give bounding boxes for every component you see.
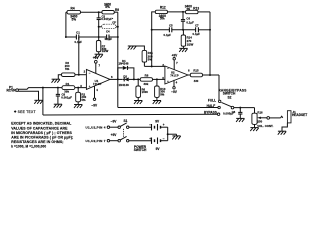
-9V terminal U1 — [94, 86, 96, 99]
switch contact HALF — [218, 106, 220, 108]
resistor R9 — [102, 11, 114, 14]
svg-text:430: 430 — [194, 79, 199, 83]
svg-text:EXCEPT AS INDICATED, DECIMAL: EXCEPT AS INDICATED, DECIMAL — [11, 122, 72, 126]
capacitor C8 — [239, 108, 241, 112]
node — [133, 78, 135, 80]
wire left vertical — [152, 12, 156, 67]
node — [137, 78, 139, 80]
ground — [236, 118, 244, 122]
-9V terminal U2 — [173, 80, 175, 87]
svg-text:1/2W: 1/2W — [102, 49, 109, 53]
svg-text:SWITCH: SWITCH — [134, 148, 147, 152]
capacitor C2 — [98, 12, 100, 17]
node bypass tap — [42, 87, 44, 89]
svg-text:R16: R16 — [257, 111, 263, 115]
diode D1 — [123, 66, 128, 70]
svg-text:VOL. CONT.: VOL. CONT. — [257, 124, 273, 128]
op-amp U1 — [86, 69, 110, 89]
wire battery junction — [167, 127, 169, 141]
node — [156, 78, 158, 80]
svg-text:R1: R1 — [66, 82, 70, 86]
svg-text:0.047μF*: 0.047μF* — [101, 17, 114, 21]
svg-text:C5: C5 — [169, 24, 173, 28]
wire to jack — [270, 117, 281, 119]
svg-text:RESISTANCES ARE IN OHMS;: RESISTANCES ARE IN OHMS; — [11, 140, 63, 144]
svg-text:VALUES OF CAPACITANCE ARE: VALUES OF CAPACITANCE ARE — [11, 126, 68, 130]
node — [78, 74, 80, 76]
node R4/R9 midpoint — [98, 11, 100, 13]
node — [98, 26, 100, 28]
wire HALF line — [118, 107, 218, 109]
wire plug tip — [18, 88, 86, 90]
resistor R13 — [186, 10, 199, 13]
svg-text:5%: 5% — [81, 98, 86, 102]
svg-text:1N4148: 1N4148 — [118, 62, 128, 66]
node — [117, 26, 119, 28]
svg-text:C3*: C3* — [112, 22, 116, 24]
svg-text:S2: S2 — [228, 96, 232, 100]
wire left vertical — [65, 12, 67, 37]
wire — [116, 26, 118, 28]
wire right vertical (feedback + half tap) — [117, 12, 119, 107]
svg-text:IN MICROFARADS ( μF ) ; OTHERS: IN MICROFARADS ( μF ) ; OTHERS — [11, 131, 72, 135]
wire U1 output — [110, 78, 123, 80]
svg-text:−9V: −9V — [111, 120, 118, 124]
svg-text:R15: R15 — [193, 69, 199, 73]
svg-text:U1,U2,PIN 7: U1,U2,PIN 7 — [86, 139, 106, 143]
node — [239, 107, 241, 109]
resistor R2 — [77, 88, 79, 93]
wire pin2 — [75, 74, 86, 76]
svg-text:1N4148: 1N4148 — [119, 83, 129, 87]
wire BYPASS line — [43, 113, 217, 116]
wire — [81, 11, 102, 13]
wire — [198, 11, 210, 13]
svg-text:1000: 1000 — [142, 90, 149, 94]
wire — [114, 11, 118, 13]
svg-text:+9V: +9V — [93, 56, 100, 60]
capacitor C5 — [168, 27, 170, 32]
resistor R4 — [67, 10, 81, 14]
wire — [79, 36, 106, 38]
svg-text:R9: R9 — [115, 8, 119, 12]
svg-text:BYPASS: BYPASS — [204, 111, 217, 115]
wire — [172, 29, 196, 31]
resistor R10 — [156, 79, 158, 86]
node — [98, 36, 100, 38]
node — [182, 29, 184, 31]
resistor R11 — [128, 46, 136, 50]
ground — [153, 101, 161, 105]
resistor R15 — [190, 73, 202, 77]
wire — [99, 26, 102, 28]
svg-text:0.001μF: 0.001μF — [61, 96, 72, 100]
node — [209, 29, 211, 31]
resistor R14 — [182, 30, 184, 35]
svg-text:0.1μF: 0.1μF — [105, 37, 113, 41]
svg-text:0.1μF: 0.1μF — [164, 33, 172, 37]
wire mid vertical — [98, 27, 100, 37]
jack sleeve to ground — [282, 123, 287, 131]
node — [65, 36, 67, 38]
resistor R6 — [137, 79, 139, 86]
svg-text:+: + — [163, 123, 165, 127]
svg-text:R13: R13 — [193, 6, 199, 10]
potentiometer R16 — [252, 113, 257, 124]
svg-text:HEADSET: HEADSET — [292, 113, 307, 117]
resistor R1 — [62, 86, 75, 90]
svg-text:D2: D2 — [123, 74, 127, 78]
node — [209, 74, 211, 76]
svg-text:U1,U2,PIN 4: U1,U2,PIN 4 — [86, 125, 106, 129]
svg-text:5%: 5% — [71, 18, 76, 22]
node — [151, 65, 153, 67]
ground — [34, 100, 42, 104]
svg-text:S1: S1 — [123, 119, 127, 123]
svg-text:+9V: +9V — [172, 53, 179, 57]
capacitor C1 — [75, 35, 77, 40]
svg-text:39k: 39k — [64, 90, 69, 94]
switch contact BYPASS — [217, 113, 219, 115]
svg-text:0.1μF: 0.1μF — [193, 32, 201, 36]
wire — [168, 11, 186, 13]
jack J1 contact — [281, 116, 283, 118]
capacitor C3 optional dashed — [102, 24, 116, 29]
capacitor C4 — [106, 35, 108, 40]
wire C1 right down to pin2 — [78, 37, 80, 75]
svg-text:741CP: 741CP — [170, 75, 179, 78]
svg-text:39k: 39k — [144, 82, 149, 86]
svg-text:HALF: HALF — [207, 104, 216, 108]
wire down to FULL — [218, 75, 220, 100]
resistor R12 — [155, 10, 167, 13]
svg-text:R8: R8 — [145, 74, 149, 78]
svg-text:+9V: +9V — [111, 133, 118, 137]
switch contact FULL — [219, 100, 221, 102]
capacitor C7 — [195, 27, 197, 32]
diode D2 — [123, 78, 124, 80]
svg-text:0.1μF: 0.1μF — [186, 20, 194, 24]
wire — [198, 29, 210, 31]
ground — [250, 128, 258, 132]
svg-text:1/2W: 1/2W — [187, 42, 194, 46]
svg-text:−9V: −9V — [91, 103, 98, 107]
switch S1 arm row2 — [120, 136, 126, 140]
op-amp U2 — [165, 66, 188, 84]
resistor R8 — [140, 78, 152, 82]
ground — [54, 104, 62, 108]
svg-text:k =1000, M =1,000,000: k =1000, M =1,000,000 — [11, 144, 46, 148]
svg-text:C1: C1 — [76, 31, 80, 35]
svg-text:5%: 5% — [105, 5, 110, 9]
svg-text:RCVR: RCVR — [6, 88, 16, 92]
node U1 output junction — [117, 78, 119, 80]
wire — [203, 74, 220, 76]
resistor R7 — [98, 37, 100, 41]
node — [182, 11, 184, 13]
svg-text:SEE TEXT: SEE TEXT — [18, 110, 36, 114]
switch pole and arm — [231, 106, 234, 109]
wire rail — [152, 29, 170, 31]
svg-text:5%: 5% — [160, 92, 165, 96]
ground — [179, 48, 187, 52]
wire rail — [66, 36, 77, 38]
wire bypass vertical — [42, 88, 44, 115]
svg-text:C7: C7 — [195, 24, 199, 28]
svg-text:FULL: FULL — [208, 98, 216, 102]
resistor R3 — [58, 75, 61, 80]
svg-text:C4: C4 — [106, 29, 110, 33]
wire to pot — [254, 108, 256, 114]
switch S1 arm row1 — [120, 123, 126, 127]
node — [57, 87, 59, 89]
note: units text block — [11, 122, 73, 149]
wire U2 output — [188, 74, 190, 76]
wire — [254, 124, 256, 127]
ground — [134, 101, 142, 105]
note: see text marker — [14, 110, 17, 113]
ground — [74, 105, 82, 109]
node — [117, 36, 119, 38]
wire — [109, 36, 118, 38]
wire — [153, 78, 165, 80]
svg-text:R4: R4 — [71, 6, 75, 10]
wire pin2 — [144, 65, 165, 67]
svg-text:−9V: −9V — [171, 90, 178, 94]
svg-text:5%: 5% — [148, 57, 153, 61]
wire plug sleeve — [18, 91, 38, 100]
node — [151, 29, 153, 31]
wire diode bridge — [118, 68, 123, 80]
svg-text:0.005μF: 0.005μF — [223, 112, 234, 116]
svg-text:ARE IN PICOFARADS ( pF OR μμF): ARE IN PICOFARADS ( pF OR μμF); — [11, 135, 73, 139]
svg-text:R12: R12 — [160, 6, 166, 10]
capacitor C9 0.001uF — [57, 88, 59, 94]
capacitor C6 — [182, 12, 184, 19]
svg-text:741CP: 741CP — [93, 83, 102, 86]
svg-text:5%: 5% — [160, 17, 165, 21]
switch S1 mechanical link — [123, 129, 125, 138]
wire — [66, 11, 67, 13]
ground — [95, 54, 103, 58]
wire right vertical — [209, 12, 211, 75]
ground — [172, 136, 180, 140]
node — [77, 87, 79, 89]
jack J1 body — [287, 111, 291, 123]
pot wiper arrow — [261, 117, 268, 119]
svg-text:5%: 5% — [65, 67, 70, 71]
